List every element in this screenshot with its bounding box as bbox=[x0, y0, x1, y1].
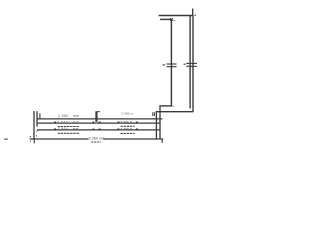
label bay2 row2 feet line bbox=[121, 125, 135, 127]
svg-text:2.080 m: 2.080 m bbox=[120, 127, 132, 131]
svg-text:2.560: 2.560 bbox=[58, 127, 69, 131]
node tick at middle divider top bbox=[97, 111, 99, 113]
wire elbow horizontal bbox=[159, 105, 172, 107]
wire dimension line h4 right part bbox=[103, 138, 163, 140]
node arrows bay2 row3 bbox=[117, 128, 119, 130]
svg-text:2.560: 2.560 bbox=[58, 120, 69, 124]
svg-text:2.080 m: 2.080 m bbox=[122, 112, 134, 116]
node dot below h4 left bbox=[30, 140, 31, 142]
node dashes flanking divider row3 bbox=[93, 128, 95, 130]
wire top edge line A bbox=[159, 15, 194, 17]
svg-text:5.080 mm: 5.080 mm bbox=[89, 137, 105, 141]
break ticks on V1 bbox=[167, 64, 177, 67]
svg-text:mm: mm bbox=[73, 127, 79, 131]
wire horizontal L3 bbox=[37, 129, 160, 131]
wire left stub bbox=[39, 113, 41, 119]
node arrows bay2 row2 bbox=[117, 121, 119, 123]
wire right extension foot bbox=[161, 139, 163, 143]
wire left extension foot of h4 bbox=[30, 136, 31, 138]
node dot left of rail break bbox=[184, 63, 186, 65]
wire left post foot bbox=[33, 139, 35, 143]
node dot right of junction cross bbox=[174, 19, 175, 21]
svg-text:2.080 m: 2.080 m bbox=[120, 120, 132, 124]
wire stub above top-right corner bbox=[192, 9, 194, 16]
node dots under left inner post bbox=[36, 131, 38, 132]
wire long bottom horizontal bbox=[156, 111, 194, 113]
node junction cross at B and V1 bbox=[170, 18, 173, 21]
wire left outer post bbox=[33, 111, 35, 139]
wire right rail inner bbox=[189, 16, 191, 109]
wire horizontal h1 bbox=[37, 118, 163, 120]
wire middle divider bbox=[95, 111, 97, 122]
wire inner vertical rail V1 bbox=[170, 19, 172, 106]
svg-text:mm: mm bbox=[73, 114, 79, 118]
label bay2 row3 feet line bbox=[121, 132, 135, 134]
wire horizontal L2 bbox=[37, 122, 160, 124]
svg-text:mm: mm bbox=[73, 120, 79, 124]
label total width feet line bbox=[91, 141, 101, 143]
node ticks left of right post top bbox=[152, 112, 154, 116]
node dot left of V1 break bbox=[163, 64, 165, 66]
wire dimension line h4 left part bbox=[30, 138, 89, 140]
node dot right of line A bbox=[195, 14, 196, 16]
wire right inner post bbox=[159, 106, 161, 139]
node dot right of V1 bottom bbox=[173, 105, 174, 107]
wire right outer post bbox=[155, 112, 157, 140]
break ticks on right rail bbox=[186, 63, 197, 66]
node arrows bay1 row2 bbox=[54, 121, 56, 123]
label bay1 row2 feet line bbox=[58, 126, 80, 128]
node arrows bay1 row3 bbox=[54, 128, 56, 130]
wire right rail outer bbox=[192, 16, 194, 112]
svg-text:2.560: 2.560 bbox=[58, 114, 69, 118]
node dashes flanking divider row2 bbox=[93, 121, 95, 123]
wire left inner post bbox=[36, 111, 38, 126]
wire inner top edge line B bbox=[160, 18, 172, 20]
label bay1 row3 feet line bbox=[58, 132, 80, 134]
node dash far left bbox=[4, 138, 8, 140]
